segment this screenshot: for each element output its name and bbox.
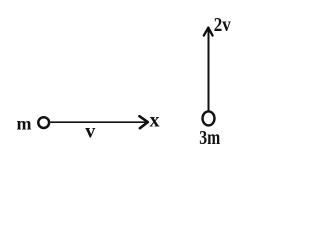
svg-text:x: x bbox=[150, 109, 160, 131]
svg-text:v: v bbox=[85, 121, 95, 143]
velocity vector v wire (horizontal line) bbox=[50, 121, 146, 123]
velocity vector 2v arrowhead bbox=[204, 28, 213, 36]
mass 3m circle bbox=[203, 111, 215, 125]
velocity vector 2v wire (vertical line) bbox=[208, 30, 210, 111]
svg-text:m: m bbox=[17, 114, 32, 134]
mass m circle bbox=[38, 117, 49, 128]
velocity vector v arrowhead bbox=[139, 116, 147, 128]
svg-text:2v: 2v bbox=[214, 14, 231, 36]
svg-text:3m: 3m bbox=[199, 127, 220, 149]
